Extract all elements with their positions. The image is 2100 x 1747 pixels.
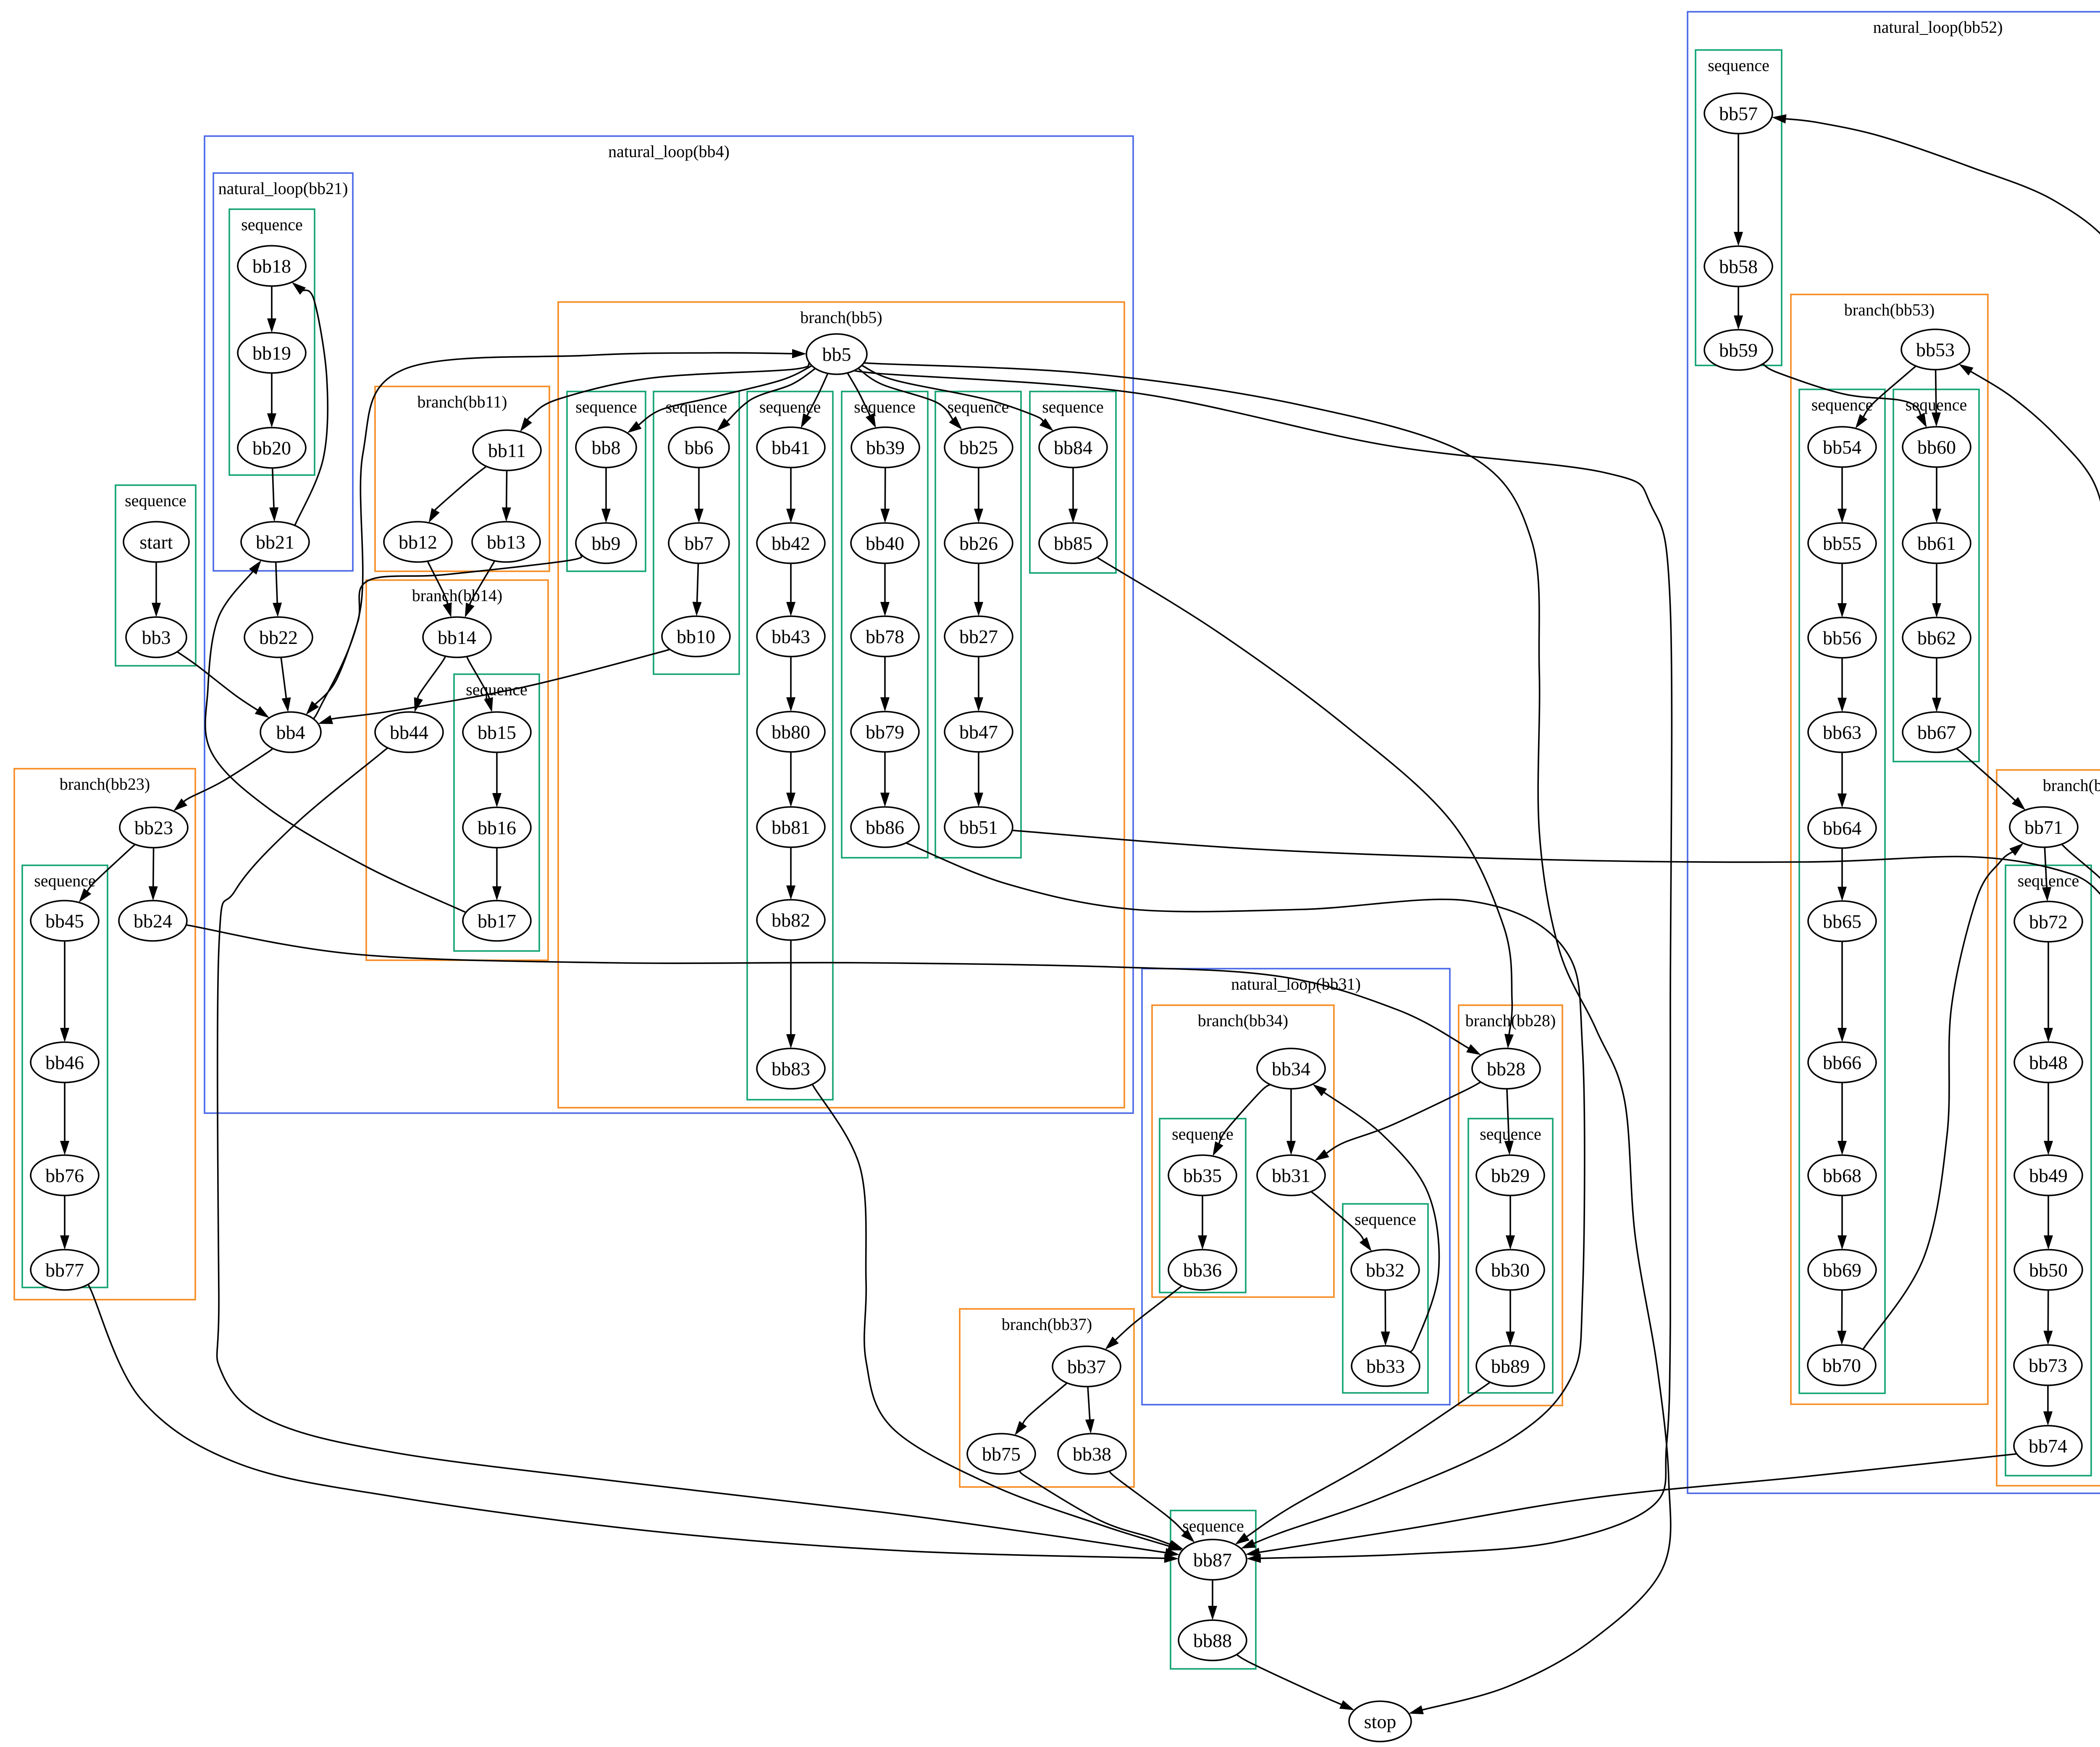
edge bb5->bb11	[520, 363, 809, 431]
edge bb81->bb82	[786, 847, 795, 900]
svg-text:branch(bb34): branch(bb34)	[1198, 1011, 1288, 1030]
edge bb19->bb20	[267, 373, 276, 428]
svg-text:bb6: bb6	[685, 437, 714, 458]
node bb87	[1179, 1539, 1247, 1580]
svg-text:bb24: bb24	[134, 910, 172, 932]
edge bb56->bb63	[1837, 658, 1847, 712]
cluster br_bb11	[375, 386, 549, 571]
svg-text:bb55: bb55	[1823, 533, 1861, 554]
cluster seq_18	[229, 209, 315, 475]
svg-text:bb73: bb73	[2029, 1355, 2067, 1376]
node bb72	[2014, 901, 2082, 942]
node bb79	[851, 712, 919, 752]
edge bb4->bb5	[310, 349, 806, 719]
edge bb22->bb4	[281, 657, 291, 712]
svg-text:bb16: bb16	[478, 817, 516, 838]
edge bb23->bb24	[149, 848, 158, 901]
node bb53	[1901, 329, 1969, 370]
svg-text:bb17: bb17	[478, 910, 516, 932]
svg-text:bb88: bb88	[1193, 1630, 1232, 1651]
edge bb68->bb69	[1837, 1195, 1847, 1250]
svg-text:bb81: bb81	[772, 817, 810, 838]
cluster seq_15	[454, 674, 539, 951]
svg-text:sequence: sequence	[125, 491, 186, 510]
svg-text:bb68: bb68	[1823, 1165, 1861, 1186]
svg-text:bb65: bb65	[1823, 911, 1861, 932]
node stop	[1349, 1701, 1411, 1742]
svg-text:bb3: bb3	[142, 627, 171, 648]
edge bb6->bb7	[694, 468, 703, 523]
node bb38	[1058, 1434, 1126, 1474]
node bb67	[1903, 712, 1971, 752]
edge bb85->bb28	[1091, 554, 1514, 1048]
edge bb40->bb78	[880, 563, 890, 616]
svg-text:sequence: sequence	[1354, 1210, 1416, 1229]
svg-text:bb41: bb41	[772, 437, 810, 458]
svg-text:bb36: bb36	[1183, 1259, 1222, 1281]
node bb21	[241, 522, 309, 562]
node bb19	[238, 333, 306, 373]
cluster seq_29	[1468, 1119, 1553, 1393]
svg-text:bb59: bb59	[1719, 339, 1758, 361]
svg-text:natural_loop(bb21): natural_loop(bb21)	[218, 179, 348, 198]
node bb35	[1168, 1155, 1236, 1195]
svg-text:bb40: bb40	[866, 533, 904, 554]
node bb10	[662, 616, 730, 657]
svg-text:bb72: bb72	[2029, 911, 2068, 933]
edge bb89->bb87	[1235, 1382, 1491, 1545]
node bb64	[1808, 808, 1876, 848]
edge bb80->bb81	[786, 752, 795, 807]
svg-text:bb33: bb33	[1366, 1356, 1405, 1377]
node bb43	[757, 616, 825, 657]
svg-text:bb31: bb31	[1272, 1165, 1310, 1186]
edge bb58->bb59	[1734, 286, 1743, 330]
edge bb54->bb55	[1837, 467, 1847, 523]
cluster nl_bb52	[1688, 12, 2100, 1493]
node bb23	[120, 807, 188, 848]
svg-text:natural_loop(bb52): natural_loop(bb52)	[1873, 18, 2003, 37]
node bb41	[757, 427, 825, 468]
node bb15	[463, 712, 531, 752]
svg-text:sequence: sequence	[1480, 1124, 1541, 1143]
cluster br_bb5	[558, 302, 1124, 1108]
edge bb74->bb87	[1245, 1453, 2029, 1557]
node bb59	[1704, 330, 1772, 370]
edge bb12->bb14	[428, 561, 452, 617]
node bb61	[1903, 523, 1971, 563]
edge start->bb3	[152, 562, 161, 617]
edge bb52->bb53	[1959, 364, 2100, 912]
edge bb38->bb87	[1110, 1471, 1195, 1542]
node bb80	[757, 712, 825, 752]
svg-text:bb48: bb48	[2029, 1052, 2068, 1073]
node bb39	[851, 427, 919, 468]
svg-text:bb28: bb28	[1487, 1058, 1525, 1080]
edge bb49->bb50	[2044, 1195, 2053, 1250]
edge bb15->bb16	[492, 752, 501, 807]
svg-text:sequence: sequence	[948, 397, 1009, 416]
svg-text:branch(bb23): branch(bb23)	[60, 775, 150, 793]
svg-text:sequence: sequence	[1811, 395, 1873, 414]
edge bb5->bb8	[627, 366, 812, 433]
node bb65	[1808, 901, 1876, 941]
node bb46	[31, 1042, 99, 1082]
node bb51	[945, 807, 1013, 847]
edge bb86->bb87	[903, 841, 1585, 1549]
edge bb82->bb83	[786, 940, 795, 1048]
node bb47	[945, 712, 1013, 752]
svg-text:bb75: bb75	[982, 1443, 1021, 1465]
svg-text:bb77: bb77	[45, 1259, 84, 1281]
svg-text:bb34: bb34	[1272, 1058, 1310, 1080]
svg-text:bb14: bb14	[438, 627, 476, 648]
svg-text:bb76: bb76	[45, 1165, 84, 1186]
cluster br_bb71	[1997, 770, 2100, 1486]
edge bb31->bb32	[1311, 1192, 1372, 1251]
edge bb27->bb47	[974, 657, 983, 712]
svg-text:bb49: bb49	[2029, 1165, 2068, 1186]
cluster br_bb28	[1459, 1005, 1562, 1405]
cluster seq_32	[1343, 1204, 1428, 1393]
node bb37	[1053, 1346, 1121, 1387]
edge bb78->bb79	[880, 657, 890, 712]
node bb18	[238, 246, 306, 286]
edge bb5->stop	[853, 362, 1671, 1714]
node bb74	[2014, 1426, 2082, 1466]
node bb29	[1476, 1155, 1544, 1195]
node bb3	[126, 617, 186, 657]
node bb69	[1808, 1250, 1876, 1290]
svg-text:bb32: bb32	[1366, 1259, 1404, 1281]
svg-text:bb54: bb54	[1823, 436, 1861, 458]
svg-text:bb7: bb7	[685, 533, 714, 554]
svg-text:bb86: bb86	[866, 817, 904, 838]
svg-text:bb11: bb11	[488, 440, 526, 461]
node bb60	[1903, 427, 1971, 467]
svg-text:branch(bb5): branch(bb5)	[800, 308, 882, 327]
edge bb71->bb72	[2042, 847, 2051, 901]
svg-text:bb53: bb53	[1916, 339, 1955, 360]
edge bb37->bb38	[1085, 1387, 1095, 1434]
svg-text:bb67: bb67	[1917, 722, 1956, 743]
svg-text:bb20: bb20	[252, 437, 291, 459]
node bb84	[1039, 427, 1107, 468]
svg-text:bb50: bb50	[2029, 1259, 2068, 1281]
svg-text:bb22: bb22	[259, 627, 298, 648]
node bb17	[463, 901, 531, 941]
svg-text:bb79: bb79	[866, 721, 904, 743]
svg-text:bb58: bb58	[1719, 256, 1758, 277]
edge bb23->bb45	[79, 844, 135, 902]
node bb49	[2014, 1155, 2082, 1195]
cluster seq_start	[115, 485, 196, 666]
svg-text:sequence: sequence	[575, 397, 637, 416]
svg-text:bb87: bb87	[1193, 1549, 1232, 1571]
edge bb67->bb71	[1956, 749, 2025, 810]
cluster seq_35	[1160, 1119, 1246, 1293]
svg-text:bb46: bb46	[45, 1052, 84, 1073]
node bb63	[1808, 712, 1876, 752]
node bb14	[423, 617, 491, 657]
edge bb65->bb66	[1837, 941, 1847, 1042]
edge bb43->bb80	[786, 657, 795, 712]
edge bb34->bb35	[1213, 1085, 1270, 1156]
edge bb52->bb57	[1772, 114, 2100, 918]
node bb25	[945, 427, 1013, 468]
svg-text:branch(bb37): branch(bb37)	[1002, 1315, 1092, 1334]
edge bb39->bb40	[880, 468, 890, 523]
node bb50	[2014, 1250, 2082, 1290]
edge bb53->bb60	[1932, 370, 1941, 427]
node bb75	[967, 1434, 1035, 1474]
node bb7	[669, 523, 729, 563]
node bb9	[576, 523, 636, 563]
cluster nl_bb21	[213, 173, 353, 571]
svg-text:bb84: bb84	[1054, 437, 1092, 458]
edge bb46->bb76	[60, 1082, 69, 1155]
svg-text:bb63: bb63	[1823, 722, 1861, 743]
edge bb25->bb26	[974, 468, 983, 523]
cluster br_bb53	[1791, 294, 1988, 1404]
cluster br_bb23	[14, 769, 195, 1300]
cluster seq_41	[747, 391, 833, 1100]
node bb13	[472, 522, 540, 562]
edge bb72->bb48	[2044, 942, 2053, 1042]
node bb88	[1179, 1620, 1247, 1660]
edge bb42->bb43	[786, 563, 795, 616]
node bb71	[2010, 807, 2078, 847]
svg-text:branch(bb71): branch(bb71)	[2043, 776, 2100, 795]
edge bb35->bb36	[1198, 1195, 1207, 1250]
node bb42	[757, 523, 825, 563]
cluster seq_25	[935, 391, 1021, 858]
node bb58	[1704, 246, 1772, 286]
edge bb11->bb12	[429, 466, 487, 523]
svg-text:sequence: sequence	[1182, 1516, 1244, 1535]
svg-text:sequence: sequence	[1042, 397, 1104, 416]
node bb86	[851, 807, 919, 847]
edge bb13->bb14	[465, 561, 495, 617]
svg-text:bb45: bb45	[45, 910, 84, 932]
node bb28	[1472, 1048, 1540, 1089]
edge bb57->bb58	[1734, 134, 1743, 246]
edge bb14->bb15	[467, 657, 493, 712]
edge bb8->bb9	[601, 468, 611, 523]
svg-text:bb74: bb74	[2029, 1435, 2067, 1457]
edge bb45->bb46	[60, 941, 69, 1042]
node bb22	[244, 617, 312, 657]
node bb5	[806, 334, 867, 374]
node bb36	[1168, 1250, 1236, 1290]
svg-text:sequence: sequence	[241, 215, 303, 234]
svg-text:bb8: bb8	[592, 437, 621, 458]
edge bb66->bb68	[1837, 1082, 1847, 1155]
edge bb7->bb10	[693, 563, 702, 616]
edge bb3->bb4	[177, 652, 269, 718]
node bb45	[31, 901, 99, 941]
node bb78	[851, 616, 919, 657]
node bb55	[1808, 523, 1876, 563]
node bb54	[1808, 427, 1876, 467]
node bb62	[1903, 617, 1971, 658]
svg-text:bb60: bb60	[1917, 436, 1956, 458]
edge bb11->bb13	[502, 470, 511, 522]
edge bb18->bb19	[267, 286, 276, 333]
node bb77	[31, 1250, 99, 1290]
cluster br_bb34	[1152, 1005, 1334, 1297]
edge bb16->bb17	[492, 848, 501, 901]
svg-text:bb5: bb5	[822, 344, 851, 365]
edge bb63->bb64	[1837, 752, 1847, 808]
edge bb5->bb39	[848, 373, 876, 428]
edge bb61->bb62	[1932, 563, 1941, 617]
edge bb75->bb87	[1020, 1471, 1184, 1549]
svg-text:bb83: bb83	[772, 1058, 810, 1080]
edge bb83->bb87	[809, 1080, 1182, 1550]
svg-text:bb42: bb42	[772, 533, 810, 554]
edge bb14->bb44	[414, 656, 446, 712]
svg-text:bb39: bb39	[866, 437, 905, 458]
edge bb50->bb73	[2043, 1290, 2053, 1345]
edge bb47->bb51	[974, 752, 983, 807]
cluster seq_84	[1030, 391, 1116, 573]
edge bb76->bb77	[60, 1195, 69, 1250]
edge bb87->bb88	[1208, 1580, 1217, 1620]
node bb82	[757, 900, 825, 940]
edge bb33->bb34	[1312, 1084, 1439, 1352]
node bb16	[463, 807, 531, 848]
edge bb5->bb41	[801, 373, 828, 428]
edge bb28->bb29	[1504, 1089, 1514, 1155]
node bb40	[851, 523, 919, 563]
edge bb51->bb52	[995, 829, 2100, 906]
edge bb5->bb6	[717, 368, 816, 431]
node bb26	[945, 523, 1013, 563]
svg-text:bb38: bb38	[1073, 1443, 1111, 1465]
node bb30	[1476, 1250, 1544, 1290]
svg-text:bb9: bb9	[592, 533, 621, 554]
svg-text:start: start	[139, 531, 173, 553]
svg-text:bb80: bb80	[772, 721, 810, 743]
svg-text:bb18: bb18	[252, 255, 291, 277]
svg-text:bb23: bb23	[134, 817, 173, 838]
svg-text:sequence: sequence	[34, 871, 96, 890]
svg-text:bb30: bb30	[1491, 1259, 1530, 1281]
node bb11	[473, 430, 541, 470]
svg-text:bb19: bb19	[252, 342, 291, 364]
node bb6	[669, 427, 729, 468]
node bb76	[31, 1155, 99, 1195]
svg-text:branch(bb53): branch(bb53)	[1844, 300, 1935, 319]
edge bb88->stop	[1236, 1655, 1354, 1710]
node bb89	[1476, 1346, 1544, 1386]
cluster seq_6	[654, 391, 739, 674]
svg-text:bb21: bb21	[256, 531, 294, 553]
svg-text:bb57: bb57	[1719, 103, 1758, 124]
node bb85	[1039, 523, 1107, 563]
cluster seq_57	[1696, 50, 1782, 365]
edge bb5->bb87	[849, 367, 1672, 1563]
edge bb34->bb31	[1286, 1089, 1296, 1155]
edge bb41->bb42	[786, 468, 795, 523]
edge bb32->bb33	[1381, 1290, 1390, 1346]
edge bb62->bb67	[1932, 658, 1941, 712]
svg-text:bb64: bb64	[1823, 817, 1861, 839]
edge bb36->bb37	[1105, 1286, 1182, 1350]
cluster seq_39	[842, 391, 928, 858]
node bb20	[238, 428, 306, 468]
edge bb44->bb87	[217, 746, 1180, 1557]
edge bb60->bb61	[1932, 467, 1941, 523]
node bb31	[1257, 1155, 1325, 1195]
svg-text:bb66: bb66	[1823, 1052, 1861, 1073]
svg-text:bb10: bb10	[677, 626, 715, 647]
node bb34	[1257, 1048, 1325, 1089]
node bb70	[1808, 1345, 1876, 1385]
edge bb84->bb85	[1068, 468, 1078, 523]
svg-text:bb13: bb13	[487, 531, 525, 553]
edge bb77->bb87	[85, 1279, 1179, 1563]
svg-text:bb70: bb70	[1822, 1355, 1861, 1376]
node bb56	[1808, 617, 1876, 658]
edge bb21->bb22	[273, 562, 282, 617]
edge bb5->bb25	[858, 368, 962, 430]
node bb8	[576, 427, 636, 468]
edge bb26->bb27	[974, 563, 983, 616]
svg-text:bb89: bb89	[1491, 1356, 1530, 1377]
svg-text:bb15: bb15	[478, 722, 516, 743]
node bb57	[1704, 93, 1772, 134]
edge bb4->bb23	[173, 748, 273, 811]
edge bb69->bb70	[1837, 1290, 1846, 1345]
svg-text:bb12: bb12	[399, 531, 437, 553]
edge bb48->bb49	[2044, 1082, 2053, 1155]
edge bb29->bb30	[1506, 1195, 1515, 1250]
svg-text:natural_loop(bb4): natural_loop(bb4)	[608, 142, 730, 161]
svg-text:bb56: bb56	[1823, 627, 1861, 649]
svg-text:branch(bb11): branch(bb11)	[417, 392, 507, 411]
cluster seq_87	[1171, 1511, 1256, 1669]
edge bb70->bb71	[1859, 843, 2023, 1354]
svg-text:branch(bb14): branch(bb14)	[412, 586, 502, 605]
svg-text:bb26: bb26	[959, 533, 998, 554]
edge bb53->bb54	[1856, 366, 1916, 428]
node bb12	[384, 522, 452, 562]
svg-text:stop: stop	[1364, 1711, 1396, 1732]
svg-text:sequence: sequence	[1708, 56, 1769, 75]
svg-text:bb37: bb37	[1067, 1356, 1106, 1377]
node bb68	[1808, 1155, 1876, 1195]
edge bb30->bb89	[1506, 1290, 1515, 1346]
svg-text:bb71: bb71	[2024, 817, 2063, 838]
cluster br_bb37	[960, 1309, 1134, 1487]
cluster seq_54	[1799, 389, 1885, 1393]
cluster seq_60	[1893, 389, 1979, 762]
node bb33	[1352, 1346, 1420, 1386]
svg-text:bb62: bb62	[1917, 627, 1956, 649]
edge bb9->bb4	[306, 554, 582, 715]
edge bb37->bb75	[1015, 1383, 1067, 1435]
node bb44	[375, 712, 443, 752]
svg-text:bb43: bb43	[772, 626, 810, 647]
svg-text:bb82: bb82	[772, 909, 810, 931]
node start	[123, 522, 189, 562]
node bb81	[757, 807, 825, 847]
edge bb28->bb31	[1315, 1082, 1481, 1161]
edge bb17->bb21	[205, 560, 471, 914]
node bb4	[260, 712, 321, 752]
